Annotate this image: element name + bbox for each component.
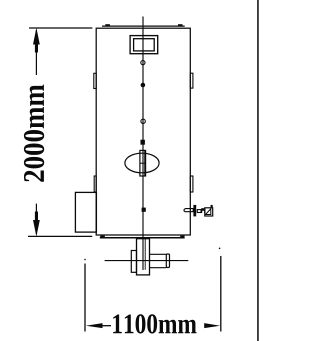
- drum shaft: [140, 150, 146, 176]
- filled square node lower: [142, 208, 146, 212]
- upper side tab right: [190, 73, 193, 88]
- left pipe flange: [131, 251, 136, 273]
- right valve top-right tab: [211, 205, 213, 208]
- right pipe bottom line: [150, 267, 167, 269]
- right valve connector: [197, 210, 201, 213]
- dimension text 1100mm: [113, 314, 196, 333]
- arrow tail left: [101, 325, 111, 327]
- top plate tab left: [105, 24, 110, 26]
- machine body: [96, 28, 190, 235]
- arrowhead up: [33, 28, 40, 45]
- drum ellipse: [125, 153, 159, 173]
- lower side tab left: [94, 176, 96, 192]
- arrowhead right: [204, 323, 220, 328]
- right valve block B inner diagonal: [206, 209, 211, 215]
- right extension line 1100: [220, 256, 222, 332]
- window inner frame: [134, 39, 155, 51]
- right valve block A: [201, 208, 205, 213]
- base plate tab left: [100, 236, 105, 238]
- top extension line: [29, 27, 92, 29]
- filled square on centerline: [141, 140, 145, 145]
- left extension line dot: [84, 259, 86, 261]
- left extension line 1100: [84, 264, 86, 332]
- small filled circle node 2: [141, 83, 146, 88]
- right valve block B: [205, 208, 213, 216]
- top plate: [102, 25, 185, 27]
- arrowhead left: [86, 323, 103, 328]
- centerline: [142, 17, 144, 271]
- right valve block A notch: [202, 211, 204, 213]
- base plate tab right: [180, 236, 184, 238]
- shaft inner line: [144, 151, 146, 176]
- window outer frame: [130, 36, 158, 54]
- top plate tab right: [178, 24, 183, 26]
- vertical dimension line upper segment: [35, 30, 37, 75]
- arrowhead down: [33, 220, 40, 237]
- base plate: [100, 237, 185, 239]
- bottom extension line: [28, 235, 92, 237]
- bottom stem: [137, 239, 150, 275]
- right pipe top line: [150, 253, 167, 255]
- sheet border right: [257, 0, 259, 341]
- left attachment box: [75, 192, 96, 232]
- lower side tab right: [190, 176, 193, 192]
- vertical dimension line lower segment: [35, 204, 37, 234]
- upper side tab left: [94, 73, 96, 88]
- pipe centerline: [105, 260, 189, 262]
- stem inner line: [144, 239, 146, 270]
- small circle node 1: [141, 61, 145, 65]
- small circle node 3: [141, 119, 145, 123]
- right pipe cap: [166, 254, 169, 268]
- right valve flange: [193, 205, 196, 217]
- right valve handle: [184, 209, 193, 212]
- shaft center tick: [140, 162, 146, 164]
- dimension text 2000mm: [24, 85, 44, 182]
